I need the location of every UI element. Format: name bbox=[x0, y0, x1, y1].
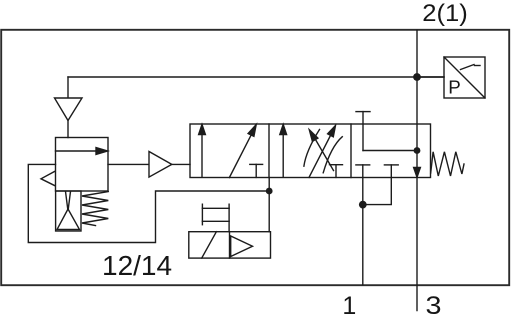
box1 blocked port T bbox=[250, 163, 263, 165]
node junction in box3 bbox=[414, 147, 421, 154]
regulator arrow bbox=[56, 150, 98, 152]
amplifier triangle A1 bbox=[149, 152, 172, 178]
svg-text:1: 1 bbox=[342, 292, 356, 315]
node junction pilot wire bbox=[266, 188, 273, 195]
regulator pilot sub-box bbox=[56, 191, 81, 231]
wire to pressure switch bbox=[417, 76, 444, 78]
exhaust nozzle triangle V1 bbox=[55, 98, 83, 121]
wire valve port to pilot valve bbox=[268, 178, 270, 232]
valve return spring bbox=[431, 152, 464, 176]
box1 diagonal arrow bbox=[229, 134, 251, 177]
node junction port1 bbox=[359, 201, 367, 209]
box2 up arrow bbox=[282, 134, 284, 177]
valve divider right bbox=[350, 124, 352, 178]
wire feedback loop 12/14 bbox=[28, 164, 269, 242]
solenoid coil diagonal bbox=[202, 232, 217, 258]
wire main line 2 vertical x=417 bbox=[416, 31, 418, 311]
wire amplifier to valve bbox=[172, 163, 190, 165]
pilot amplifier triangle bbox=[231, 236, 253, 257]
box3 port T left bbox=[356, 164, 370, 166]
box2 throttle arc right bbox=[323, 137, 342, 173]
poppet cone bbox=[57, 209, 80, 230]
wire corner down to exhaust triangle bbox=[67, 77, 69, 98]
switch contact fixed bbox=[475, 65, 481, 67]
wire pilot top horizontal y=77 bbox=[68, 76, 444, 78]
main valve body bbox=[190, 124, 431, 178]
manual override top line bbox=[202, 207, 229, 209]
svg-text:12/14: 12/14 bbox=[102, 250, 172, 281]
box2 throttle arrow up-right bbox=[309, 134, 332, 178]
svg-text:3: 3 bbox=[426, 292, 442, 315]
nozzle line left bbox=[66, 192, 68, 210]
wire port 1 down bbox=[362, 205, 364, 285]
box3 internal horizontal bbox=[363, 150, 417, 152]
pressure switch U1 box bbox=[444, 57, 485, 98]
nozzle line right bbox=[68, 192, 70, 210]
valve divider left bbox=[268, 124, 270, 178]
wire triangle to regulator box bbox=[67, 121, 69, 138]
switch contact lever bbox=[461, 65, 475, 70]
manual override bottom line bbox=[202, 220, 229, 222]
pilot valve divider bbox=[229, 232, 231, 258]
box2 throttle arc left bbox=[304, 130, 320, 167]
box3 port T right bbox=[384, 164, 398, 166]
manual override right bar bbox=[228, 204, 230, 232]
regulator spring bbox=[82, 192, 108, 226]
regulator relief check arrow bbox=[41, 172, 55, 186]
box3 down arrow bbox=[414, 168, 421, 178]
pilot solenoid valve S1 body bbox=[189, 232, 271, 258]
amplifier wire from regulator bbox=[108, 163, 149, 165]
manual override left bar bbox=[201, 204, 203, 225]
regulator R1 body bbox=[56, 138, 109, 192]
box2 throttle arrow up-left bbox=[314, 137, 334, 171]
box3 top blocked pilot T bbox=[356, 111, 370, 113]
svg-text:P: P bbox=[448, 77, 461, 98]
box1 up arrow bbox=[201, 134, 203, 177]
box2 blocked port T bbox=[330, 164, 343, 166]
node junction top wire bbox=[413, 73, 421, 81]
pressure switch diagonal bbox=[444, 57, 485, 98]
svg-text:2(1): 2(1) bbox=[422, 0, 468, 27]
